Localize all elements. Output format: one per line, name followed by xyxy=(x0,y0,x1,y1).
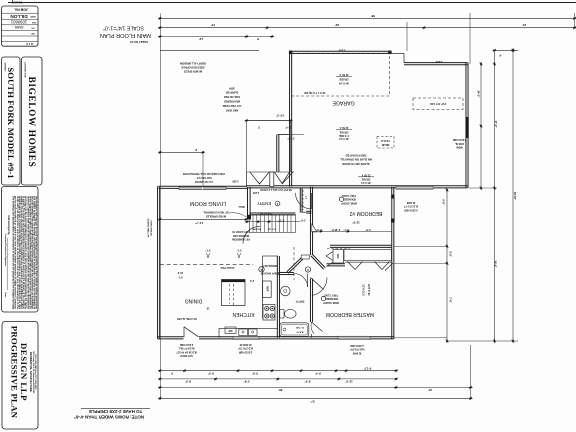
half wall at stairs xyxy=(247,187,249,219)
svg-text:2-2X8: 2-2X8 xyxy=(232,180,239,182)
bedroom2 dims xyxy=(335,220,371,231)
svg-text:CONTRACTOR:: CONTRACTOR: xyxy=(24,62,27,79)
svg-text:JOB No.: JOB No. xyxy=(14,8,28,12)
svg-text:12'-5": 12'-5" xyxy=(345,380,353,384)
plan title: MAIN FLOOR PLAN xyxy=(100,24,151,43)
dimension row 4 left xyxy=(160,49,259,51)
svg-text:WE SAAT: WE SAAT xyxy=(11,1,22,4)
svg-text:2'-1": 2'-1" xyxy=(335,228,340,231)
svg-text:21': 21' xyxy=(522,23,526,27)
guardrail note xyxy=(203,211,246,218)
garage window note xyxy=(452,138,466,149)
dining door note below xyxy=(176,343,197,357)
kitchen window note xyxy=(238,343,253,354)
svg-text:36'-0 1/4: 36'-0 1/4 xyxy=(339,137,349,140)
svg-text:7030 FIXED OR TALL PROTECTION: 7030 FIXED OR TALL PROTECTION xyxy=(183,172,225,175)
living room window band xyxy=(179,187,226,190)
svg-text:2'-10": 2'-10" xyxy=(287,136,295,140)
svg-text:12'-6": 12'-6" xyxy=(352,220,360,224)
svg-text:W/ MFR SPECS: W/ MFR SPECS xyxy=(184,70,203,73)
smoke detector kitchen xyxy=(259,264,279,274)
svg-text:5': 5' xyxy=(171,372,174,376)
svg-text:2-2X10 HDR: 2-2X10 HDR xyxy=(452,138,466,141)
svg-text:2-2X6: 2-2X6 xyxy=(338,49,345,52)
garage door label xyxy=(336,73,352,85)
hall right wall xyxy=(309,187,311,255)
porch outline xyxy=(247,121,291,173)
svg-text:2'-6": 2'-6" xyxy=(449,251,453,257)
svg-text:7'-6": 7'-6" xyxy=(449,297,453,303)
svg-text:22 SF A: 22 SF A xyxy=(339,73,348,76)
extension line garage jog xyxy=(406,22,408,51)
svg-text:3000 PSI RATED: 3000 PSI RATED xyxy=(346,154,367,158)
master door leaf and arc xyxy=(311,278,324,290)
extension line garage right xyxy=(469,13,471,64)
svg-text:16'-0 x 7'-0 OH DR: 16'-0 x 7'-0 OH DR xyxy=(304,91,326,94)
porch bay V windows xyxy=(250,172,269,184)
svg-text:2-2X10 HDR: 2-2X10 HDR xyxy=(404,208,418,211)
bottom wall segments xyxy=(158,338,184,340)
half wall label xyxy=(238,191,259,208)
hall half wall cap xyxy=(301,255,309,259)
right dim x481 xyxy=(477,62,483,191)
porch left edge lower xyxy=(246,172,248,187)
bath door arc xyxy=(294,274,308,288)
svg-text:Customer/Contractor Signature: Customer/Contractor Signature xyxy=(4,234,7,267)
svg-text:ROUNDED: ROUNDED xyxy=(326,297,338,300)
hall diagonal wall SW xyxy=(287,258,302,272)
svg-text:26" HIGH GUARDRAIL: 26" HIGH GUARDRAIL xyxy=(203,211,229,214)
master window note xyxy=(350,344,365,355)
clg floor note xyxy=(231,230,250,241)
note verify windows xyxy=(179,62,206,73)
svg-text:9'-3": 9'-3" xyxy=(184,380,191,384)
svg-text:VAULT PLN: VAULT PLN xyxy=(220,266,234,269)
svg-text:10'-2": 10'-2" xyxy=(275,113,284,117)
svg-text:4'-1": 4'-1" xyxy=(343,228,348,231)
garage window black bar xyxy=(466,117,469,138)
svg-text:ID 9046: ID 9046 xyxy=(352,351,361,354)
svg-text:2'-8": 2'-8" xyxy=(301,219,306,221)
svg-text:S: S xyxy=(260,268,262,272)
linen door wedge xyxy=(326,252,333,261)
svg-text:WINDOW APR: WINDOW APR xyxy=(233,234,249,237)
svg-text:FD FLR: FD FLR xyxy=(381,139,390,142)
porch inner wall xyxy=(276,135,278,173)
svg-text:3'-1": 3'-1" xyxy=(205,248,210,251)
svg-text:9LD 37% 7'8": 9LD 37% 7'8" xyxy=(238,347,253,350)
svg-text:SLOPE 3IN TO DOOR: SLOPE 3IN TO DOOR xyxy=(342,162,369,166)
svg-text:W/ 2X PT SILL: W/ 2X PT SILL xyxy=(178,347,195,350)
entry label xyxy=(257,201,280,215)
porch dim 2-10 xyxy=(278,135,304,141)
stairs xyxy=(250,213,296,232)
right extension line xyxy=(574,13,576,29)
bottom dim row C xyxy=(158,345,473,400)
svg-text:2'-11": 2'-11" xyxy=(278,219,284,221)
svg-text:REF: REF xyxy=(266,286,270,292)
sheet top border xyxy=(8,2,576,4)
range xyxy=(263,305,275,321)
title block: owner box (SOUTH FORK MODEL #9-1) xyxy=(2,57,21,185)
kitchen ceiling dashed xyxy=(293,247,295,280)
master vertical dims xyxy=(362,284,371,296)
bath top wall xyxy=(278,274,294,276)
bedroom2 right window band xyxy=(391,198,394,222)
bath door master side xyxy=(311,322,322,334)
bath right wall xyxy=(309,279,311,323)
porch dim 10-2 xyxy=(244,113,293,122)
master/bedroom2 right wall xyxy=(391,187,393,339)
stairs dims xyxy=(245,219,306,224)
svg-text:3'-8": 3'-8" xyxy=(251,372,258,376)
svg-text:2-2X10 HDR: 2-2X10 HDR xyxy=(350,344,364,347)
svg-text:2-2X6: 2-2X6 xyxy=(435,60,442,63)
svg-text:9LD 57% 9'4": 9LD 57% 9'4" xyxy=(350,348,365,351)
master trey note xyxy=(321,293,339,304)
svg-text:15': 15' xyxy=(211,23,215,27)
svg-text:BEDROOM #2: BEDROOM #2 xyxy=(349,210,382,216)
svg-text:MAIN FLOOR PLAN: MAIN FLOOR PLAN xyxy=(100,32,151,38)
bath left wall xyxy=(276,256,278,338)
svg-text:9LD 28-3/4 40-1/2": 9LD 28-3/4 40-1/2" xyxy=(176,350,197,353)
small dim pair 3-1 right xyxy=(236,248,241,258)
svg-text:GRADE: GRADE xyxy=(339,78,348,81)
svg-text:4IN SLAB ON GRAN FILL: 4IN SLAB ON GRAN FILL xyxy=(340,158,372,162)
svg-text:DINING: DINING xyxy=(185,298,203,304)
svg-text:SLIDING WALL PT: SLIDING WALL PT xyxy=(147,218,150,238)
svg-text:DILLON: DILLON xyxy=(10,14,28,19)
svg-text:6'8" HUNDROW: 6'8" HUNDROW xyxy=(231,238,250,241)
left extension line xyxy=(159,14,161,401)
svg-text:13': 13' xyxy=(206,307,210,310)
house top wall left (living) xyxy=(159,187,248,189)
hall door wedge xyxy=(312,224,317,232)
garage top wall right xyxy=(404,64,468,66)
left exterior wall xyxy=(157,186,159,339)
svg-text:Date: Date xyxy=(4,293,7,299)
svg-text:24'-8": 24'-8" xyxy=(494,260,498,268)
svg-text:4'x7' ATT ACC: 4'x7' ATT ACC xyxy=(429,102,446,105)
svg-text:PROGRESSIVE PLAN: PROGRESSIVE PLAN xyxy=(10,326,20,419)
svg-text:3': 3' xyxy=(257,37,260,41)
dining small dims xyxy=(177,271,183,279)
closet bifold doors xyxy=(348,262,363,270)
svg-text:9LD 72% 9.5': 9LD 72% 9.5' xyxy=(196,176,212,179)
svg-text:SMOKE DET: SMOKE DET xyxy=(262,264,277,267)
vault ceiling dashed line xyxy=(160,264,253,269)
fridge xyxy=(263,281,272,298)
smoke detector hall xyxy=(305,267,310,272)
closet small divider xyxy=(331,250,344,261)
svg-text:3'-4": 3'-4" xyxy=(314,372,321,376)
svg-text:6'-11": 6'-11" xyxy=(363,366,371,370)
svg-text:OC 3 PNL GLASS: OC 3 PNL GLASS xyxy=(177,317,197,320)
svg-text:GRADE: GRADE xyxy=(361,178,370,181)
svg-text:5'-4": 5'-4" xyxy=(284,125,290,129)
furnace dashed box xyxy=(377,137,394,149)
svg-text:1090601: 1090601 xyxy=(10,20,27,25)
svg-text:Acknowledged by: Acknowledged by xyxy=(7,215,10,235)
svg-text:5'-6": 5'-6" xyxy=(442,199,446,205)
garage wall jog xyxy=(391,52,405,54)
svg-text:W/ WD SPINDLES: W/ WD SPINDLES xyxy=(206,214,227,217)
svg-text:DRAIN: DRAIN xyxy=(381,143,389,146)
bedroom2 door arc xyxy=(296,193,312,209)
title block: legal paragraph box xyxy=(2,187,39,313)
svg-text:BATH: BATH xyxy=(295,299,304,303)
washer circle xyxy=(281,286,291,296)
svg-text:2-2X10 HDR: 2-2X10 HDR xyxy=(238,350,252,353)
svg-text:39'-10": 39'-10" xyxy=(513,192,517,201)
svg-text:14'-7": 14'-7" xyxy=(194,221,203,225)
garage right wall xyxy=(465,63,467,188)
master top wall xyxy=(327,265,346,267)
svg-text:21': 21' xyxy=(428,388,432,392)
svg-text:9LD 37.5 4'T: 9LD 37.5 4'T xyxy=(404,205,418,208)
svg-text:LIVING ROOM: LIVING ROOM xyxy=(190,200,226,206)
garage slab note xyxy=(340,154,372,166)
svg-text:WEATHERED: WEATHERED xyxy=(224,100,240,103)
svg-text:57': 57' xyxy=(310,400,314,404)
svg-text:ROUNDED: ROUNDED xyxy=(344,198,356,201)
svg-text:ID 3038: ID 3038 xyxy=(406,201,415,204)
linen closet NIC xyxy=(333,250,344,264)
closet jog xyxy=(327,262,334,267)
toilet xyxy=(280,309,296,318)
dishwasher xyxy=(225,327,236,333)
svg-text:TREY CLNG: TREY CLNG xyxy=(342,194,356,197)
svg-text:SMB -: SMB - xyxy=(12,25,24,30)
svg-text:NOTE: ROWS WIDER THAN 4'-6": NOTE: ROWS WIDER THAN 4'-6" xyxy=(74,415,144,420)
right dim x513 xyxy=(447,48,518,343)
attic access dashed rect xyxy=(413,98,463,110)
svg-text:GARAGE: GARAGE xyxy=(332,100,355,106)
note left margin xyxy=(147,218,153,238)
bedroom2 window note xyxy=(404,201,418,212)
dining door xyxy=(184,327,199,337)
dimension row 3 xyxy=(158,35,275,41)
svg-text:KITCHEN: KITCHEN xyxy=(232,311,254,317)
note bottom left xyxy=(74,408,150,419)
svg-text:(507) 456-0880 Fax (507) 45: (507) 456-0880 Fax (507) 456-0813 xyxy=(34,355,37,391)
svg-text:NMD: NMD xyxy=(30,15,35,17)
svg-text:9'-1 1/2: 9'-1 1/2 xyxy=(268,228,276,230)
entry closet xyxy=(299,188,301,213)
kitchen window band bottom xyxy=(233,336,259,339)
svg-text:9'-6": 9'-6" xyxy=(365,228,370,231)
svg-text:NIC: NIC xyxy=(336,254,340,259)
svg-text:12': 12' xyxy=(199,37,203,41)
svg-text:2'-8": 2'-8" xyxy=(316,228,321,231)
svg-text:22 SF A: 22 SF A xyxy=(361,173,370,176)
svg-text:12'-0 CLG: 12'-0 CLG xyxy=(362,284,365,296)
svg-text:17'-2": 17'-2" xyxy=(494,120,498,128)
garage door dashed rect xyxy=(292,54,390,96)
dimension 4ft at top right xyxy=(492,49,518,58)
svg-text:VERIFY ALL WINDOW: VERIFY ALL WINDOW xyxy=(179,62,206,65)
svg-text:4'-0 ONE: 4'-0 ONE xyxy=(339,134,349,137)
closet rod dashed xyxy=(327,248,350,250)
svg-text:16'-9: 16'-9 xyxy=(177,271,183,274)
front door leaf xyxy=(282,172,294,185)
bedroom2 window band top xyxy=(396,186,433,189)
kitchen sink xyxy=(239,329,257,336)
svg-text:SHEET M1-16: SHEET M1-16 xyxy=(130,40,148,44)
svg-text:OWNER:: OWNER: xyxy=(4,62,6,71)
svg-text:3-9-1/2 LVM DR: 3-9-1/2 LVM DR xyxy=(195,180,213,183)
title block: contractor box (BIGELOW HOMES) xyxy=(22,57,43,185)
svg-text:WDW: WDW xyxy=(456,146,463,149)
small dim pair 3-1 left xyxy=(205,248,210,258)
svg-text:S: S xyxy=(307,268,309,272)
svg-text:36'-0 1/4: 36'-0 1/4 xyxy=(361,181,371,184)
svg-text:W/WL SHCKP: W/WL SHCKP xyxy=(341,202,357,205)
svg-text:W/BAT BACKUP: W/BAT BACKUP xyxy=(260,271,279,274)
svg-text:9LB 7T: 9LB 7T xyxy=(296,331,304,333)
svg-text:ENTRY: ENTRY xyxy=(257,201,271,206)
kitchen bottom counter xyxy=(219,327,278,329)
tub xyxy=(280,323,309,337)
svg-text:5/8 PVT J/I-0 JA/J-J-C LIN DR: 5/8 PVT J/I-0 JA/J-J-C LIN DR xyxy=(260,188,292,191)
svg-text:9'-3": 9'-3" xyxy=(207,372,214,376)
svg-text:8'-5": 8'-5" xyxy=(304,380,311,384)
svg-text:GRADE: GRADE xyxy=(339,130,348,133)
svg-text:SOUTH FORK MODEL #9-1: SOUTH FORK MODEL #9-1 xyxy=(6,67,16,178)
svg-text:DESIGN LLP: DESIGN LLP xyxy=(19,343,29,401)
kitchen counter right edge xyxy=(262,256,264,319)
kitchen island xyxy=(222,280,246,306)
note furnace water heater xyxy=(222,87,241,112)
svg-text:58': 58' xyxy=(371,14,375,18)
svg-text:36'-0 1/4: 36'-0 1/4 xyxy=(339,82,349,85)
svg-text:WALL: WALL xyxy=(238,205,245,208)
svg-text:3'-1": 3'-1" xyxy=(236,248,241,251)
svg-text:TREY CLNG: TREY CLNG xyxy=(324,293,338,296)
garage vent label 1 xyxy=(336,126,352,140)
hall dim line xyxy=(312,228,392,233)
living window note xyxy=(183,172,225,183)
master closet band xyxy=(344,250,392,261)
svg-text:3036 SL: 3036 SL xyxy=(454,142,464,145)
garage top wall xyxy=(290,52,392,54)
arch arc at hall xyxy=(243,226,260,243)
svg-text:COIL OR PED: COIL OR PED xyxy=(224,95,240,98)
svg-text:BIGELOW HOMES: BIGELOW HOMES xyxy=(27,77,37,168)
svg-text:the designer and may not be us: the designer and may not be used reprodu… xyxy=(35,196,38,310)
house top wall entry/bedroom2 xyxy=(247,187,468,189)
master door notch xyxy=(385,263,393,271)
master window band bottom xyxy=(338,336,370,339)
dimension row 2 xyxy=(158,23,576,29)
svg-text:6'-1: 6'-1 xyxy=(178,276,183,279)
svg-text:EVT 9'-02: EVT 9'-02 xyxy=(367,284,370,296)
svg-text:2-2X10 HDR: 2-2X10 HDR xyxy=(179,343,193,346)
bottom dim row A xyxy=(158,366,399,375)
bedroom2 bottom wall xyxy=(330,246,392,248)
svg-text:22': 22' xyxy=(335,23,339,27)
garage left wall xyxy=(289,51,291,186)
svg-text:QUARTER: QUARTER xyxy=(226,91,239,94)
right dim x447 xyxy=(394,188,453,344)
svg-text:TO HAVE 2-2X8 CRIPPLE: TO HAVE 2-2X8 CRIPPLE xyxy=(89,409,143,414)
svg-text:SCALE 1/4"=1'-0": SCALE 1/4"=1'-0" xyxy=(103,24,144,30)
svg-text:22 SF A: 22 SF A xyxy=(339,126,348,129)
svg-text:5'-8": 5'-8" xyxy=(243,380,250,384)
svg-text:MASTER BEDROOM: MASTER BEDROOM xyxy=(326,311,374,317)
svg-text:M.B: M.B xyxy=(32,21,36,23)
bedroom2 trey note xyxy=(339,194,357,205)
svg-text:NR: NR xyxy=(31,32,35,34)
garage vent label 2 xyxy=(358,173,374,184)
hall diagonal wall SE xyxy=(311,256,324,270)
svg-text:SHT DOPO: SHT DOPO xyxy=(180,354,193,357)
svg-text:2': 2' xyxy=(195,148,198,152)
svg-text:AND VENT: AND VENT xyxy=(225,109,238,112)
svg-text:2-BRG NAILED: 2-BRG NAILED xyxy=(150,220,153,236)
dim 14-7 living xyxy=(158,218,249,225)
svg-text:FL TUB: FL TUB xyxy=(296,326,304,328)
garage wall end posts xyxy=(289,51,292,54)
svg-text:FCT PER CODE: FCT PER CODE xyxy=(222,104,241,107)
svg-text:W/WL SHCKP: W/WL SHCKP xyxy=(323,301,339,304)
dim 7ft porch left xyxy=(158,148,206,187)
svg-text:2-2X6: 2-2X6 xyxy=(252,191,259,193)
bottom dim row D xyxy=(158,397,473,404)
title block: Progressive Plan Design LLP box xyxy=(2,322,38,430)
svg-text:DN 13R: DN 13R xyxy=(253,228,261,230)
svg-text:24'-2": 24'-2" xyxy=(477,90,481,98)
svg-text:ID 3030 2F: ID 3030 2F xyxy=(239,343,251,346)
svg-text:4': 4' xyxy=(499,54,502,58)
title block: job info table xyxy=(2,1,39,47)
svg-text:2004: 2004 xyxy=(229,87,235,90)
right dim x494.5 xyxy=(469,50,498,343)
bottom dim row B xyxy=(158,377,399,383)
dimension row 1 (58 ft overall) xyxy=(158,14,576,20)
svg-text:11 x 8: 11 x 8 xyxy=(26,42,34,46)
svg-text:SIZES RGH OPNGS: SIZES RGH OPNGS xyxy=(181,66,205,69)
svg-text:36': 36' xyxy=(278,388,282,392)
